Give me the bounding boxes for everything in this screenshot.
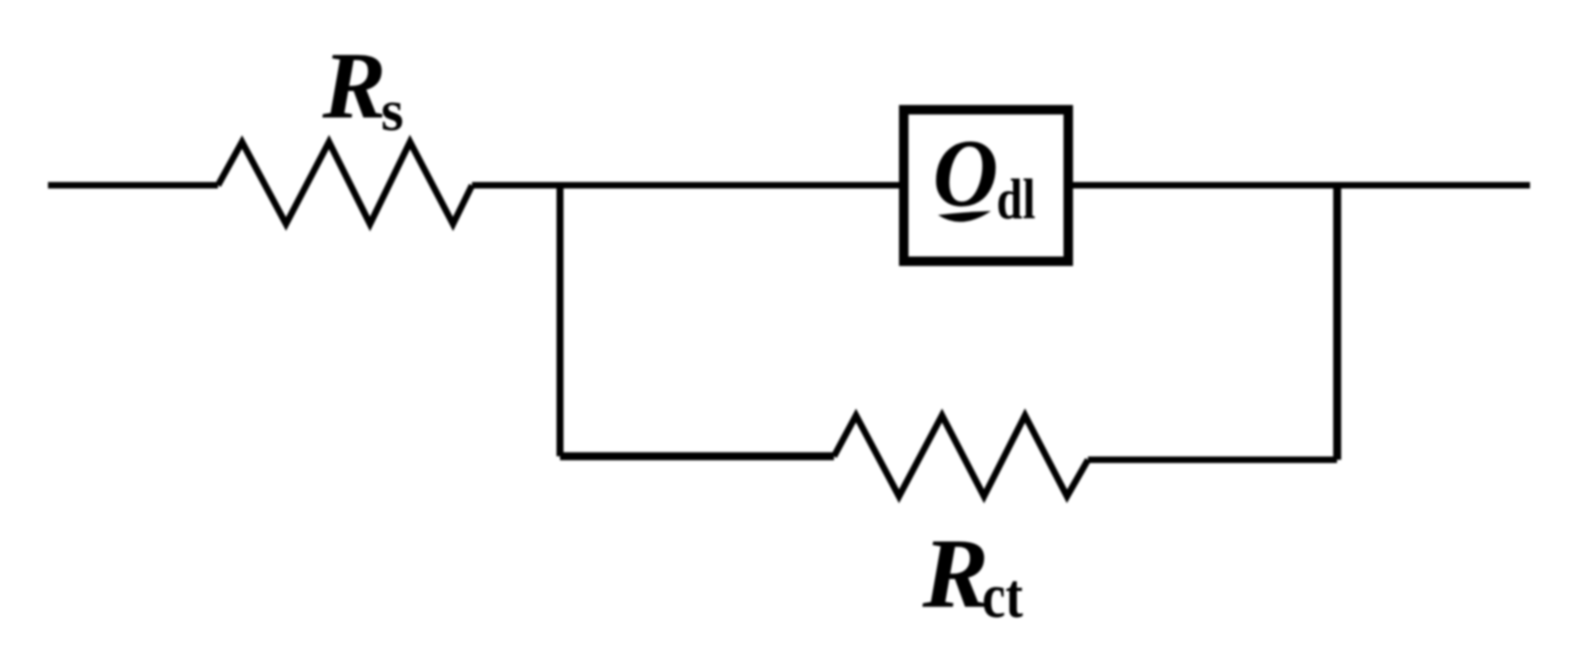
- resistor R_s zigzag: [218, 142, 472, 224]
- svg-text:ct: ct: [982, 560, 1024, 631]
- wire: Qdl box to node B and right lead: [1073, 182, 1530, 189]
- svg-text:s: s: [381, 78, 404, 143]
- wire: Rs output to node A and on to Qdl box: [472, 182, 899, 189]
- resistor R_ct zigzag: [834, 416, 1088, 497]
- label R_s: [322, 33, 404, 144]
- svg-text:O: O: [933, 120, 999, 227]
- wire: bottom branch right segment: [1088, 456, 1337, 463]
- wire: bottom branch left segment: [560, 452, 834, 460]
- svg-text:dl: dl: [997, 169, 1036, 232]
- label Q_dl: [933, 120, 1036, 232]
- label R_ct: [922, 518, 1024, 632]
- svg-text:R: R: [922, 518, 989, 629]
- node B: right parallel junction, vertical wire down: [1333, 185, 1341, 459]
- node A: left parallel junction, vertical wire down: [557, 185, 564, 456]
- wire: left lead into Rs: [48, 182, 218, 189]
- svg-text:R: R: [322, 33, 387, 139]
- CPE box Q_dl: [904, 110, 1069, 262]
